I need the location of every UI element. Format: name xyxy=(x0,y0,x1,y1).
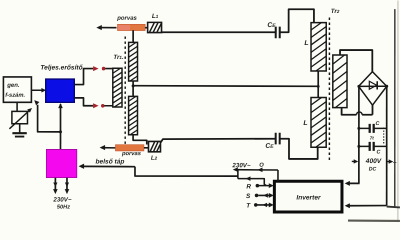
label belső táp xyxy=(96,158,125,165)
wire CE bottom to Tr2 xyxy=(280,139,318,159)
scan border bottom right xyxy=(348,219,400,222)
transformer Tr1 secondary bottom coil xyxy=(129,96,138,134)
transformer Tr1 primary coil xyxy=(113,68,122,107)
inductor L2 xyxy=(148,141,160,151)
svg-text:gen.: gen. xyxy=(6,83,20,89)
label CE top xyxy=(267,22,276,29)
svg-text:O: O xyxy=(259,163,264,169)
transformer Tr2 core (dashed) xyxy=(328,18,330,160)
generator box xyxy=(3,77,31,102)
mains lead right xyxy=(65,178,70,195)
trimmer lower lead xyxy=(19,124,21,133)
svg-text:S: S xyxy=(246,193,251,200)
scan border right (faint) xyxy=(397,0,399,222)
node Tr1 center tap xyxy=(132,84,135,87)
terminal dot top (red) xyxy=(102,67,106,71)
label gen. xyxy=(6,83,20,89)
wire supply to amplifier (vertical) xyxy=(58,103,63,149)
svg-text:L: L xyxy=(304,40,308,47)
phase S lead xyxy=(255,193,274,198)
wire output arrow (top secondary branch) xyxy=(96,25,116,30)
wire terminal to Tr1 primary top xyxy=(105,68,113,70)
label 230V~ (mains) xyxy=(52,196,71,203)
svg-text:L2: L2 xyxy=(151,155,158,162)
svg-text:7t: 7t xyxy=(370,136,375,141)
powder-iron core slug (bottom, orange) xyxy=(115,145,143,151)
label T xyxy=(246,203,251,210)
label 400V xyxy=(365,158,382,165)
svg-text:L: L xyxy=(303,120,307,127)
capacitor plate lower xyxy=(15,136,24,138)
wire node top (junction porvas/L1) xyxy=(145,27,148,29)
wire top node to Tr1 secondary xyxy=(132,30,134,42)
svg-text:Tr1.: Tr1. xyxy=(113,54,124,61)
label 50Hz xyxy=(57,204,70,210)
wire plus-rail stub to edge xyxy=(387,206,400,209)
terminal dot bottom (red) xyxy=(101,104,105,108)
wire amp output bottom xyxy=(74,98,93,106)
wire DC plus rail xyxy=(386,86,388,205)
label porvas (top choke core) xyxy=(116,16,137,22)
wire CE top to Tr2 xyxy=(280,9,314,32)
wire belső táp (internal supply feed) xyxy=(79,164,238,176)
wire amp output top xyxy=(74,69,93,85)
wire Tr2 secondary top to bridge xyxy=(340,50,372,72)
power amplifier box (blue) xyxy=(46,79,75,102)
svg-text:C: C xyxy=(376,121,380,127)
powder-iron core slug (top, orange) xyxy=(118,24,146,30)
label porvas (bottom) xyxy=(121,151,142,157)
svg-text:DC: DC xyxy=(369,167,377,173)
capacitor C top xyxy=(359,124,387,133)
wire tie xyxy=(237,170,239,179)
svg-text:50Hz: 50Hz xyxy=(57,204,70,210)
phase T lead xyxy=(254,203,274,208)
svg-text:porvas: porvas xyxy=(121,151,142,157)
label L1 xyxy=(152,13,159,20)
svg-text:230V~: 230V~ xyxy=(52,196,71,203)
arrow minus terminal xyxy=(352,159,359,163)
wire gen box down lead xyxy=(16,102,18,111)
trimmer (reference adjust) box xyxy=(12,111,28,123)
transformer Tr2 primary bottom coil L xyxy=(311,97,326,147)
label f-szám. xyxy=(5,93,25,99)
svg-text:Teljes.erősítő: Teljes.erősítő xyxy=(40,64,83,71)
wire Tr2 secondary bottom xyxy=(342,108,357,115)
svg-text:R: R xyxy=(246,184,251,191)
wire hop to bridge bottom xyxy=(362,114,372,116)
label L (bottom coil) xyxy=(303,120,307,127)
svg-text:L1: L1 xyxy=(152,13,159,20)
wire DC minus to inverter xyxy=(345,181,360,186)
phase R lead xyxy=(256,183,274,188)
label S xyxy=(246,193,251,200)
wire output arrow (bottom secondary branch) xyxy=(100,145,116,150)
label Teljes. erősítő (power amplifier) xyxy=(40,64,83,71)
transformer Tr1 secondary top coil xyxy=(129,42,138,81)
label C top xyxy=(376,121,380,127)
label plus sign xyxy=(393,160,397,167)
node supply branch xyxy=(59,130,62,133)
arrow red bottom (to Tr1 primary) xyxy=(93,103,99,108)
wire 230V line xyxy=(233,167,278,181)
svg-text:Tr2: Tr2 xyxy=(331,8,340,15)
capacitor C bottom xyxy=(359,142,387,151)
capacitor plate upper xyxy=(12,132,26,134)
svg-text:f-szám.: f-szám. xyxy=(5,93,25,99)
wire bridge bottom lead xyxy=(371,105,373,115)
arrow plus terminal xyxy=(387,159,393,163)
wire DC minus rail xyxy=(358,86,360,183)
node filter bottom left xyxy=(357,145,360,148)
wire DC plus to inverter xyxy=(345,203,387,208)
svg-text:400V: 400V xyxy=(365,158,382,165)
svg-text:belső táp: belső táp xyxy=(96,158,125,165)
power supply box (magenta) xyxy=(46,149,76,177)
inductor L1 xyxy=(148,22,162,32)
node filter top left xyxy=(357,127,360,130)
capacitor CE top xyxy=(276,27,280,39)
svg-text:230V~: 230V~ xyxy=(231,162,250,169)
label Tr2 xyxy=(331,8,340,15)
wire feedback branch xyxy=(34,100,60,132)
label Inverter xyxy=(296,195,321,202)
wire midpoint dotted xyxy=(383,128,385,145)
arrow red top (to Tr1 primary) xyxy=(93,66,99,71)
label midpoint mark xyxy=(370,136,375,141)
transformer Tr1 core (dashed) xyxy=(124,36,126,150)
transformer Tr2 secondary coil xyxy=(333,55,347,108)
label 230V~ (inverter input) xyxy=(231,162,250,169)
label R xyxy=(246,184,251,191)
mains lead left xyxy=(53,178,58,195)
wire gen to amplifier xyxy=(31,88,46,92)
label Tr1 xyxy=(113,54,124,61)
inverter box xyxy=(274,181,342,212)
label DC xyxy=(369,167,377,173)
wire crossover hop xyxy=(356,112,362,115)
svg-text:C: C xyxy=(377,150,381,156)
label L2 xyxy=(151,155,158,162)
capacitor CE bottom xyxy=(276,133,280,145)
wire center link (Tr1 tap to Tr2 tap) xyxy=(133,85,318,88)
label L (top coil) xyxy=(304,40,308,47)
wire L2 to CE (bottom) xyxy=(161,139,276,143)
label C bottom xyxy=(377,150,381,156)
wire terminal to Tr1 primary bottom xyxy=(104,105,112,107)
scan border right (dark) xyxy=(394,9,396,206)
svg-text:Inverter: Inverter xyxy=(296,195,321,202)
wire Tr1 secondary center tap stub xyxy=(132,81,134,97)
transformer Tr2 primary top coil L xyxy=(311,23,326,71)
node Tr2 center tap xyxy=(317,85,320,88)
svg-text:CE: CE xyxy=(265,143,274,150)
trimmer arrow xyxy=(9,108,32,129)
label O (phase) xyxy=(259,163,264,169)
wire node bottom (porvas/L2 gap) xyxy=(144,147,149,149)
wire Tr1 secondary bottom to node xyxy=(133,135,147,145)
diode bridge (rectifier) xyxy=(357,72,388,106)
wire Tr2 primary link stub xyxy=(317,71,319,97)
label CE bottom xyxy=(265,143,274,150)
wire L1 to CE (top) xyxy=(162,31,276,33)
wire aux line to R xyxy=(238,176,266,185)
svg-text:porvas: porvas xyxy=(116,16,137,22)
